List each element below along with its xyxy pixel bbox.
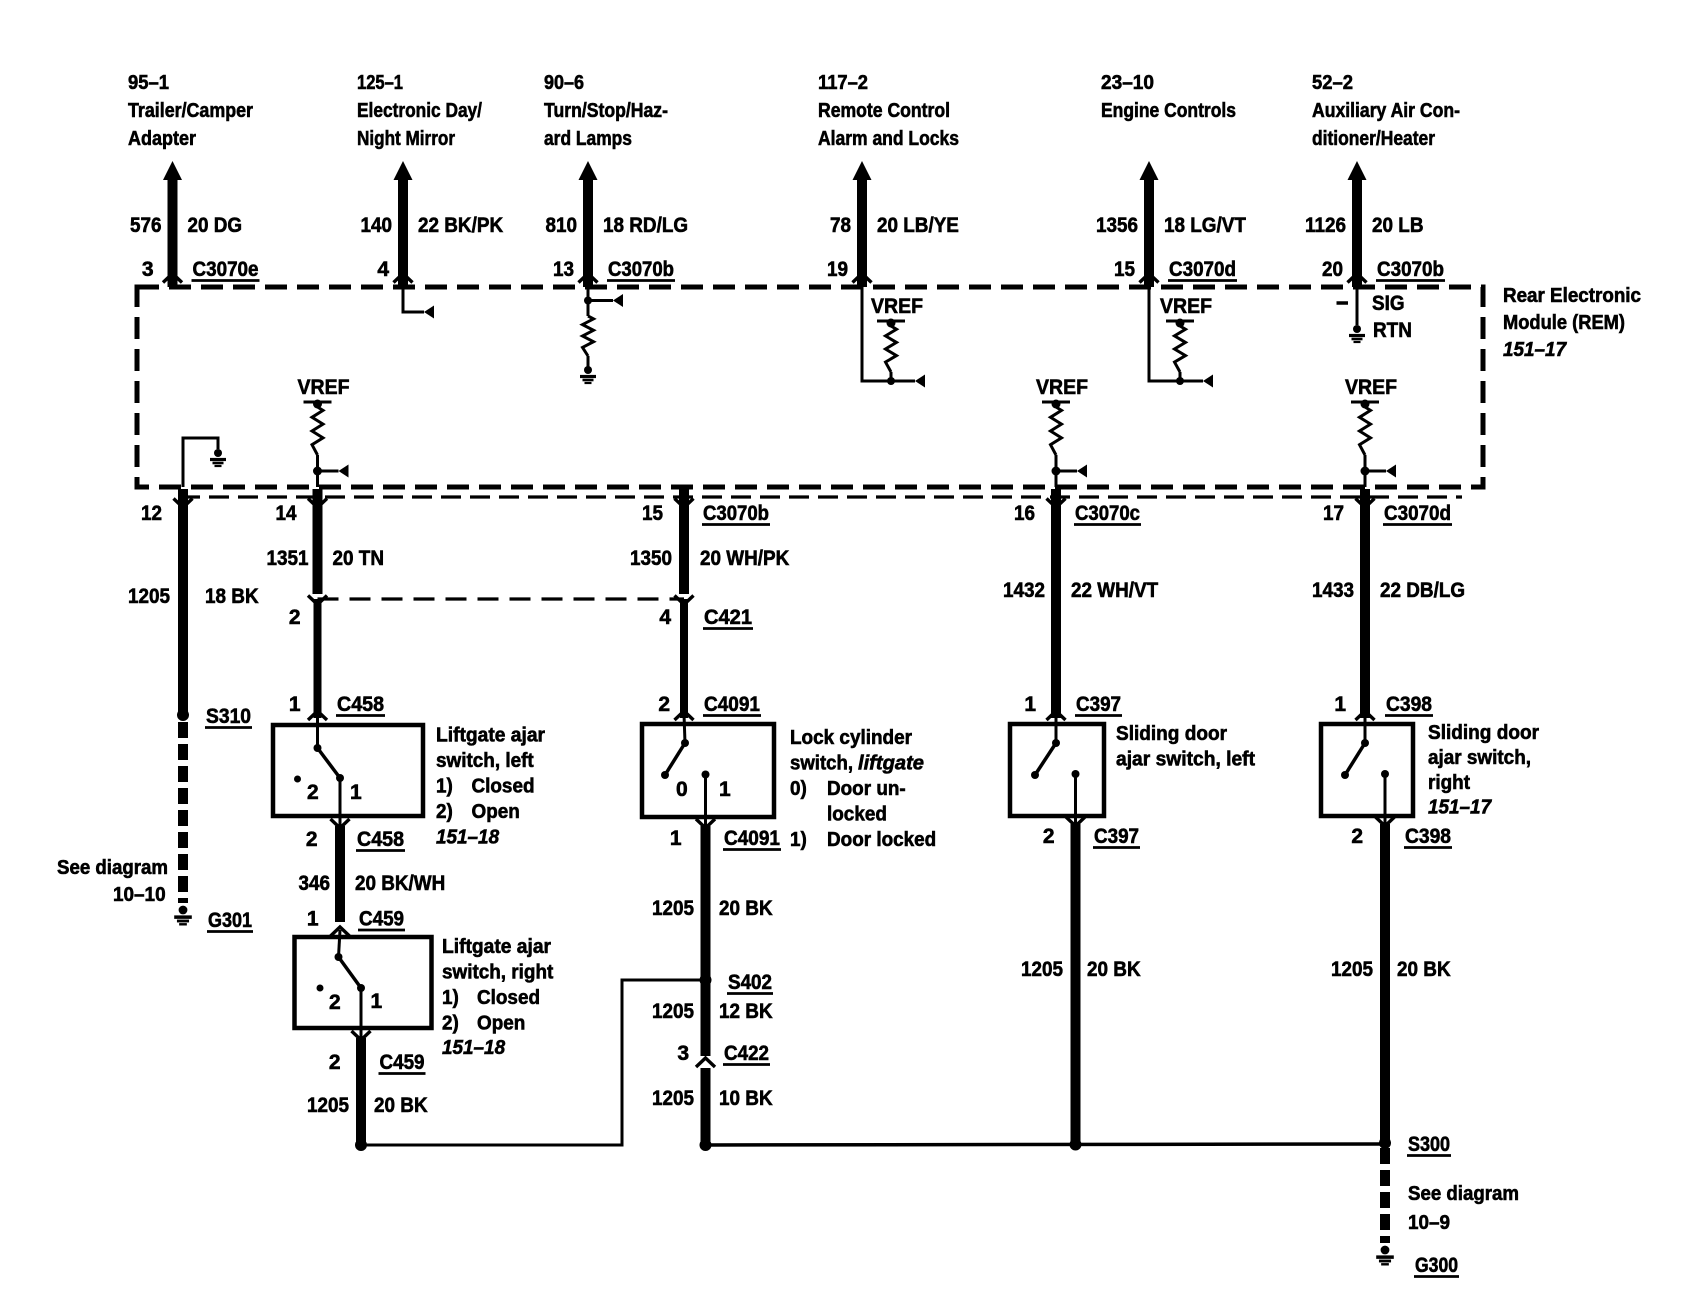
pin 2 / connector C458 label (306, 828, 405, 851)
svg-text:C3070b: C3070b (1377, 258, 1444, 281)
node: pin 19 junction (887, 377, 895, 385)
wire 1205 label (1331, 958, 1451, 981)
svg-text:2: 2 (289, 606, 301, 629)
svg-text:1350: 1350 (630, 547, 672, 570)
internal-connection arrow (pin 4) (424, 306, 434, 319)
svg-text:Open: Open (477, 1013, 525, 1035)
svg-text:VREF: VREF (298, 376, 350, 399)
svg-text:C459: C459 (359, 908, 404, 931)
pin 1 / connector C4091 label (670, 827, 781, 850)
ground: REM internal (pin 13) (584, 366, 592, 374)
wire 1205 label (652, 897, 773, 920)
svg-text:RTN: RTN (1373, 319, 1412, 342)
svg-text:C458: C458 (337, 693, 384, 716)
svg-text:1433: 1433 (1312, 579, 1354, 602)
wire: pin 17 branch (1365, 470, 1386, 473)
wire: pin 4 internal stub (403, 287, 424, 312)
svg-text:ard Lamps: ard Lamps (544, 128, 632, 150)
node label: circuit 52&#8211;2 destination (1312, 72, 1460, 150)
node label: circuit 117&#8211;2 destination (818, 72, 959, 150)
node: pin 17 junction (1361, 467, 1370, 476)
svg-text:Open: Open (472, 801, 520, 823)
svg-text:140: 140 (361, 214, 393, 237)
resistor: VREF pull-up (pin 17) (1360, 407, 1371, 455)
svg-text:C3070c: C3070c (1075, 502, 1140, 525)
wire: pin 19 internal (862, 287, 915, 381)
pin 20 / connector C3070b label (1322, 258, 1445, 281)
See diagram 10-10 note (57, 857, 168, 906)
wire: resistor to junction (pin 16) (1055, 455, 1058, 487)
wire: S402 branch to liftgate junction (363, 980, 706, 1145)
node label: circuit 23&#8211;10 destination (1101, 72, 1236, 122)
minus polarity label (1337, 301, 1349, 305)
svg-text:4: 4 (377, 258, 389, 281)
wire W3 number/gauge label (546, 214, 689, 237)
svg-text:3: 3 (142, 258, 154, 281)
wire: pin 14 branch (318, 470, 339, 473)
node: junction liftgate/lock (355, 1139, 367, 1151)
wire W1 to Trailer/Camper (arrow up) (163, 161, 182, 287)
wire 1205 12 BK (701, 980, 711, 1056)
svg-text:Engine Controls: Engine Controls (1101, 100, 1236, 122)
switch position marker dot (317, 985, 324, 992)
svg-text:22 BK/PK: 22 BK/PK (418, 214, 503, 237)
node: junction sliding left / bus (1070, 1139, 1082, 1151)
svg-text:20 BK: 20 BK (719, 897, 773, 920)
svg-text:C458: C458 (357, 828, 404, 851)
svg-text:C3070b: C3070b (703, 502, 769, 525)
svg-text:liftgate: liftgate (858, 753, 924, 775)
connector chevron C398 pin 2 (1376, 817, 1395, 826)
node label: circuit 90&#8211;6 destination (544, 72, 668, 150)
wire W2 number/gauge label (361, 214, 504, 237)
wire 1350 20 WH/PK (679, 489, 689, 594)
svg-text:151–17: 151–17 (1428, 797, 1492, 819)
switch blade (sliding door left) (1031, 714, 1060, 779)
wire 1432 label (1003, 579, 1158, 602)
svg-text:2: 2 (1043, 825, 1055, 848)
wire W4 to Remote Control (arrow up) (853, 161, 872, 287)
See diagram 10-9 note (1408, 1183, 1519, 1234)
legend: Liftgate ajar switch left (436, 725, 545, 849)
svg-text:Closed: Closed (477, 987, 540, 1009)
svg-text:VREF: VREF (871, 295, 923, 318)
node label: circuit 125&#8211;1 destination (357, 72, 482, 150)
connector chevron C398 pin 1 (1356, 711, 1375, 720)
svg-text:C3070d: C3070d (1169, 258, 1236, 281)
wire W4 number/gauge label (830, 214, 959, 237)
switch blade (liftgate right) (335, 930, 366, 992)
svg-text:Closed: Closed (472, 776, 535, 798)
svg-text:151–18: 151–18 (436, 827, 500, 849)
wire: pin 20 internal SIG (1356, 287, 1359, 325)
wire 346 label (299, 872, 446, 895)
svg-text:2: 2 (329, 1051, 341, 1074)
svg-text:2: 2 (307, 781, 319, 804)
resistor: VREF pull-up (pin 19) (886, 326, 897, 372)
wire: resistor to junction (pin 14) (316, 455, 319, 487)
pin 2 / connector C459 label (329, 1051, 426, 1074)
splice S300 (1379, 1137, 1391, 1149)
pin 15 / connector C3070d label (1114, 258, 1237, 281)
svg-text:117–2: 117–2 (818, 72, 868, 94)
svg-text:10–9: 10–9 (1408, 1212, 1450, 1234)
wire 1351 label (267, 547, 385, 570)
svg-text:C3070d: C3070d (1384, 502, 1451, 525)
svg-text:15: 15 (1114, 258, 1135, 281)
svg-text:S300: S300 (1408, 1133, 1450, 1156)
svg-text:C397: C397 (1076, 693, 1121, 716)
svg-text:1205: 1205 (652, 897, 694, 920)
switch contact 1 dot (702, 771, 710, 779)
svg-text:1205: 1205 (307, 1094, 349, 1117)
svg-text:switch,: switch, (790, 753, 853, 775)
svg-text:Liftgate ajar: Liftgate ajar (442, 936, 551, 958)
svg-text:VREF: VREF (1345, 376, 1397, 399)
svg-text:S402: S402 (728, 971, 772, 994)
svg-text:ajar switch, left: ajar switch, left (1116, 749, 1255, 771)
connector chevron C421 right (675, 596, 694, 605)
node: pin 15 junction (1176, 377, 1184, 385)
connector chevron pin 17 (1356, 499, 1375, 508)
ground G301 (179, 906, 188, 915)
svg-text:G301: G301 (208, 909, 252, 932)
svg-text:G300: G300 (1415, 1254, 1458, 1277)
svg-text:20: 20 (1322, 258, 1343, 281)
svg-text:1: 1 (1334, 693, 1346, 716)
wire 1205 10 BK (701, 1068, 711, 1145)
switch contact dot (1072, 770, 1080, 778)
splice S402 (700, 974, 712, 986)
svg-text:C398: C398 (1386, 693, 1432, 716)
svg-text:Alarm and Locks: Alarm and Locks (818, 128, 959, 150)
svg-text:0: 0 (676, 778, 688, 801)
wire 1205 10 BK label (652, 1087, 773, 1110)
wire W6 number/gauge label (1305, 214, 1424, 237)
pin 1 / connector C459 label (307, 908, 405, 931)
svg-text:C3070e: C3070e (193, 258, 259, 281)
svg-text:Auxiliary Air Con-: Auxiliary Air Con- (1312, 100, 1460, 122)
connector chevron C458 pin 2 (331, 819, 350, 828)
node: junction below C422 (700, 1139, 712, 1151)
switch position labels 2/1 (307, 781, 362, 804)
wire: pin 15 internal (1149, 287, 1203, 381)
svg-text:1205: 1205 (652, 1087, 694, 1110)
svg-text:20 LB/YE: 20 LB/YE (877, 214, 959, 237)
wire 1432 22 WH/VT (1051, 489, 1061, 718)
wire: switch contact out (1074, 774, 1077, 826)
connector chevron on wire W3 (579, 274, 598, 283)
svg-text:20 BK: 20 BK (1087, 958, 1141, 981)
wire: resistor to ground (587, 356, 590, 368)
switch: Sliding door ajar switch right (box) (1321, 724, 1413, 816)
svg-text:346: 346 (299, 872, 331, 895)
pin 15 / connector C3070b label (642, 502, 770, 525)
wire 1205 18 BK (pin 12 down) (178, 489, 188, 715)
connector chevron C4091 pin 2 (675, 711, 694, 720)
switch blade (lock cylinder) (661, 714, 689, 779)
svg-text:2: 2 (658, 693, 670, 716)
wire 1205 label (128, 585, 259, 608)
svg-text:20 BK: 20 BK (1397, 958, 1451, 981)
svg-text:See diagram: See diagram (1408, 1183, 1519, 1205)
resistor: VREF pull-up (pin 14) (312, 407, 323, 455)
svg-text:2): 2) (436, 801, 453, 823)
svg-text:18 LG/VT: 18 LG/VT (1164, 214, 1246, 237)
connector chevron C459 pin 2 (352, 1031, 371, 1040)
svg-text:Sliding door: Sliding door (1428, 722, 1539, 744)
wire 1205 label (307, 1094, 428, 1117)
svg-text:C398: C398 (1405, 825, 1451, 848)
svg-text:Door locked: Door locked (827, 829, 936, 851)
svg-text:3: 3 (677, 1042, 689, 1065)
pin 1 / connector C397 label (1024, 693, 1122, 716)
connector line C3070 (dashed) (180, 495, 1462, 498)
connector chevron on wire W1 (163, 274, 182, 283)
svg-text:20 BK/WH: 20 BK/WH (355, 872, 445, 895)
internal-connection arrow (pin 14) (339, 465, 349, 478)
svg-text:C459: C459 (380, 1051, 425, 1074)
internal-connection arrow (pin 19) (915, 375, 925, 388)
wire: pin 16 branch (1056, 470, 1077, 473)
svg-text:1205: 1205 (1021, 958, 1063, 981)
wire W2 to Electronic Day/ (arrow up) (394, 161, 413, 287)
svg-text:1: 1 (289, 693, 301, 716)
connector chevron pin 14 (308, 499, 327, 508)
wire 1205 label (1021, 958, 1141, 981)
wire to G300 (dashed) (1380, 1148, 1390, 1243)
legend: Sliding door ajar switch right (1428, 722, 1539, 819)
wire: C421 to lock cylinder switch (680, 599, 688, 718)
svg-text:1: 1 (350, 781, 362, 804)
connector line C421 (dashed) (318, 597, 685, 600)
svg-text:151–18: 151–18 (442, 1037, 506, 1059)
wire: pin 12 internal to ground (183, 438, 218, 487)
switch: Liftgate ajar switch left (box) (273, 725, 423, 816)
svg-text:Lock cylinder: Lock cylinder (790, 727, 912, 749)
connector chevron C421 left (308, 596, 327, 605)
svg-text:20 WH/PK: 20 WH/PK (700, 547, 789, 570)
svg-text:1205: 1205 (128, 585, 170, 608)
svg-text:15: 15 (642, 502, 663, 525)
svg-text:1: 1 (719, 778, 731, 801)
switch blade (sliding door right) (1341, 714, 1369, 779)
pin 4 / connector C421 label (659, 606, 753, 629)
svg-text:12: 12 (141, 502, 162, 525)
legend: Lock cylinder switch liftgate (790, 727, 936, 851)
svg-text:2: 2 (306, 828, 318, 851)
wire: switch contact 1 out (339, 778, 342, 826)
switch: Sliding door ajar switch left (box) (1010, 724, 1104, 816)
svg-text:2: 2 (1351, 825, 1363, 848)
svg-text:1): 1) (442, 987, 459, 1009)
wire W1 number/gauge label (130, 214, 242, 237)
wire: switch contact 1 out (360, 988, 363, 1038)
wire: pin 13 branch (588, 299, 613, 302)
wire 1205 12 BK label (652, 1000, 773, 1023)
switch position marker dot (294, 776, 301, 783)
svg-text:20 TN: 20 TN (333, 547, 385, 570)
connector chevron C397 pin 2 (1066, 817, 1085, 826)
pin 17 / connector C3070d label (1323, 502, 1452, 525)
svg-text:SIG: SIG (1372, 292, 1405, 315)
connector chevron on wire W2 (394, 274, 413, 283)
svg-text:Rear Electronic: Rear Electronic (1503, 285, 1641, 307)
svg-text:Turn/Stop/Haz-: Turn/Stop/Haz- (544, 100, 668, 122)
svg-text:20 DG: 20 DG (188, 214, 243, 237)
svg-text:14: 14 (276, 502, 297, 525)
svg-text:VREF: VREF (1036, 376, 1088, 399)
wire W5 number/gauge label (1096, 214, 1246, 237)
node: pin 14 junction (313, 467, 322, 476)
wire: switch contact 1 out (704, 775, 707, 827)
wire W6 to Auxiliary Air Con- (arrow up) (1348, 161, 1367, 287)
svg-text:20 LB: 20 LB (1372, 214, 1424, 237)
svg-text:16: 16 (1014, 502, 1035, 525)
svg-text:151–17: 151–17 (1503, 339, 1567, 361)
wire: ground bus to S300 (706, 1144, 1386, 1145)
svg-text:22 WH/VT: 22 WH/VT (1071, 579, 1158, 602)
connector chevron C458 pin 1 (308, 711, 327, 720)
svg-text:0): 0) (790, 778, 807, 800)
svg-text:19: 19 (827, 258, 848, 281)
splice S310 (177, 709, 189, 721)
svg-text:switch, left: switch, left (436, 750, 534, 772)
pin 3 / connector C422 label (677, 1042, 770, 1065)
resistor: REM internal (pin 13) (583, 316, 594, 356)
svg-text:Remote Control: Remote Control (818, 100, 950, 122)
ground: REM internal RTN (1353, 325, 1361, 333)
svg-text:1: 1 (1024, 693, 1036, 716)
wire 346 20 BK/WH (335, 826, 345, 922)
wire 1433 22 DB/LG (1360, 489, 1370, 718)
svg-text:ajar switch,: ajar switch, (1428, 747, 1531, 769)
wire 1205 20 BK (lock cyl) (701, 826, 711, 980)
svg-text:10–10: 10–10 (113, 884, 166, 906)
switch position labels 0/1 (676, 778, 731, 801)
internal-connection arrow (pin 16) (1077, 465, 1087, 478)
pin 2 / connector C4091 label (658, 693, 761, 716)
svg-text:78: 78 (830, 214, 851, 237)
svg-text:1): 1) (436, 776, 453, 798)
svg-text:1: 1 (371, 990, 383, 1013)
svg-text:1: 1 (670, 827, 682, 850)
svg-text:C397: C397 (1094, 825, 1139, 848)
svg-text:switch, right: switch, right (442, 962, 554, 984)
REM module name label (1503, 285, 1641, 361)
connector chevron on wire W4 (853, 274, 872, 283)
pin 13 / connector C3070b label (553, 258, 675, 281)
svg-text:Trailer/Camper: Trailer/Camper (128, 100, 253, 122)
svg-text:Module (REM): Module (REM) (1503, 312, 1625, 334)
internal-connection arrow (pin 15) (1203, 375, 1213, 388)
wire: resistor to junction (pin 19) (890, 372, 893, 381)
wire 1351 20 TN (313, 489, 323, 594)
svg-text:1): 1) (790, 829, 807, 851)
svg-text:Liftgate ajar: Liftgate ajar (436, 725, 545, 747)
pin 1 / connector C458 label (289, 693, 385, 716)
internal-connection arrow (pin 17) (1386, 465, 1396, 478)
svg-text:95–1: 95–1 (128, 72, 169, 94)
legend: Liftgate ajar switch right (442, 936, 554, 1059)
svg-text:576: 576 (130, 214, 162, 237)
connector chevron pin 16 (1047, 499, 1066, 508)
svg-text:13: 13 (553, 258, 574, 281)
pin 2 / connector C397 label (1043, 825, 1140, 848)
wire: C421 to liftgate switch left (314, 599, 322, 718)
svg-text:125–1: 125–1 (357, 72, 403, 94)
wire 1350 label (630, 547, 789, 570)
connector chevron pin 12 (174, 499, 193, 508)
svg-text:S310: S310 (206, 705, 251, 728)
svg-text:See diagram: See diagram (57, 857, 168, 879)
svg-text:C421: C421 (704, 606, 752, 629)
connector chevron C459 pin 1 (331, 927, 350, 936)
wire W3 to Turn/Stop/Haz- (arrow up) (579, 161, 598, 287)
switch position labels 2/1 (329, 990, 383, 1014)
wire W5 to Engine Controls (arrow up) (1140, 161, 1159, 287)
pin 2 / connector C398 label (1351, 825, 1452, 848)
connector chevron C4091 pin 1 (696, 819, 715, 828)
svg-text:C3070b: C3070b (608, 258, 674, 281)
svg-text:Adapter: Adapter (128, 128, 196, 150)
switch blade (liftgate left) (314, 714, 345, 782)
connector chevron pin 15 (675, 499, 694, 508)
svg-text:1356: 1356 (1096, 214, 1138, 237)
resistor: VREF pull-up (pin 15) (1175, 326, 1186, 372)
svg-text:1: 1 (307, 908, 319, 931)
svg-text:Electronic Day/: Electronic Day/ (357, 100, 482, 122)
Rear Electronic Module (REM) dashed box U1 (137, 287, 1483, 487)
svg-text:18 BK: 18 BK (205, 585, 259, 608)
wire 1205 20 BK (liftgate) (356, 1038, 366, 1145)
pin 16 / connector C3070c label (1014, 502, 1141, 525)
svg-text:ditioner/Heater: ditioner/Heater (1312, 128, 1435, 150)
svg-text:2: 2 (329, 991, 341, 1014)
connector chevron on wire W6 (1348, 274, 1367, 283)
switch: Liftgate ajar switch right (box) (295, 937, 432, 1028)
wire: pin 13 internal (587, 287, 590, 316)
svg-text:right: right (1428, 772, 1470, 794)
svg-text:1351: 1351 (267, 547, 309, 570)
svg-text:23–10: 23–10 (1101, 72, 1154, 94)
svg-text:VREF: VREF (1160, 295, 1212, 318)
wire 1433 label (1312, 579, 1465, 602)
svg-text:22 DB/LG: 22 DB/LG (1380, 579, 1465, 602)
svg-text:12 BK: 12 BK (719, 1000, 773, 1023)
svg-text:1432: 1432 (1003, 579, 1045, 602)
connector chevron C422 pin 3 (696, 1058, 715, 1067)
svg-text:C4091: C4091 (704, 693, 760, 716)
svg-text:Sliding door: Sliding door (1116, 723, 1227, 745)
wire 1205 20 BK (sliding left) (1071, 824, 1081, 1145)
wire: resistor to junction (pin 15) (1179, 372, 1182, 381)
ground G300 (1381, 1246, 1390, 1255)
resistor: VREF pull-up (pin 16) (1051, 407, 1062, 455)
svg-text:Door un-: Door un- (827, 778, 906, 800)
connector chevron C397 pin 1 (1047, 711, 1066, 720)
svg-text:2): 2) (442, 1013, 459, 1035)
svg-text:C4091: C4091 (724, 827, 780, 850)
svg-text:10 BK: 10 BK (719, 1087, 773, 1110)
ground: REM internal (pin 12) (214, 449, 222, 457)
node: pin 16 junction (1052, 467, 1061, 476)
connector chevron on wire W5 (1140, 274, 1159, 283)
internal-connection arrow (pin 13) (613, 294, 623, 307)
svg-text:locked: locked (827, 804, 887, 826)
legend: Sliding door ajar switch left (1116, 723, 1255, 771)
node: pin 13 junction (584, 297, 592, 305)
